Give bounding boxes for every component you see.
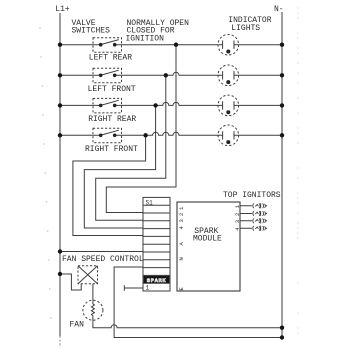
svg-text:SWITCHES: SWITCHES	[72, 26, 111, 35]
svg-text:E: E	[178, 287, 185, 291]
svg-text:3: 3	[178, 219, 185, 222]
svg-text:2: 2	[178, 213, 185, 216]
svg-text:1: 1	[146, 285, 150, 292]
svg-text:4: 4	[178, 226, 185, 230]
svg-text:1: 1	[178, 206, 185, 210]
svg-text:SPARK: SPARK	[147, 277, 167, 284]
svg-text:N: N	[178, 257, 185, 260]
svg-text:N-: N-	[274, 5, 284, 14]
svg-text:2: 2	[234, 213, 241, 216]
svg-text:3: 3	[234, 220, 241, 223]
svg-text:LIGHTS: LIGHTS	[231, 24, 260, 33]
svg-text:FAN: FAN	[70, 321, 85, 330]
svg-text:LEFT REAR: LEFT REAR	[89, 54, 132, 63]
svg-text:RIGHT FRONT: RIGHT FRONT	[85, 145, 138, 154]
svg-text:LEFT FRONT: LEFT FRONT	[88, 85, 136, 94]
svg-text:A: A	[178, 242, 185, 246]
svg-text:MODULE: MODULE	[193, 234, 222, 243]
svg-text:L1+: L1+	[55, 5, 70, 14]
svg-text:FAN SPEED CONTROL: FAN SPEED CONTROL	[62, 255, 144, 264]
svg-text:IGNITION: IGNITION	[126, 34, 165, 43]
svg-text:S1: S1	[146, 199, 154, 206]
svg-text:TOP IGNITORS: TOP IGNITORS	[223, 191, 281, 200]
svg-text:RIGHT REAR: RIGHT REAR	[88, 115, 136, 124]
